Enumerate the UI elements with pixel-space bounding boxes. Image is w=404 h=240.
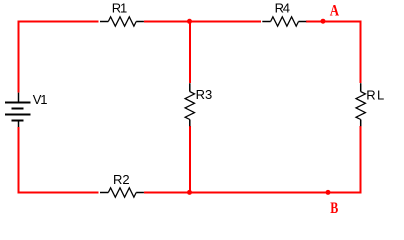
svg-text:R2: R2 [113, 172, 130, 187]
wire top-right: R4 to corner down right rail [306, 22, 361, 84]
junction top (middle rail / top wire) [187, 19, 192, 24]
wire top-middle: R1 to R4 [144, 21, 261, 23]
node A dot [321, 19, 326, 24]
svg-text:R4: R4 [275, 1, 290, 16]
wire left-bottom: battery to bottom-left corner to R2 [19, 127, 99, 193]
svg-text:A: A [330, 3, 340, 20]
resistor R1 [100, 17, 144, 26]
battery V1 [5, 93, 31, 127]
wire middle top: junction to R3 [189, 22, 191, 84]
wire middle bottom: R3 to bottom junction [189, 126, 191, 192]
junction bottom (middle rail / bottom wire) [187, 190, 192, 195]
svg-text:R1: R1 [112, 1, 127, 16]
resistor R3 [185, 83, 194, 126]
resistor R4 [262, 17, 306, 26]
wire top-left: left corner to R1 [19, 22, 99, 93]
resistor R2 [100, 188, 144, 197]
resistor RL [356, 83, 365, 126]
svg-text:B: B [330, 200, 338, 217]
svg-text:V1: V1 [33, 92, 47, 107]
svg-text:RL: RL [366, 88, 385, 103]
wire right-bottom: RL to bottom-right corner [144, 126, 361, 192]
node B dot [326, 190, 331, 195]
svg-text:R3: R3 [196, 87, 213, 102]
